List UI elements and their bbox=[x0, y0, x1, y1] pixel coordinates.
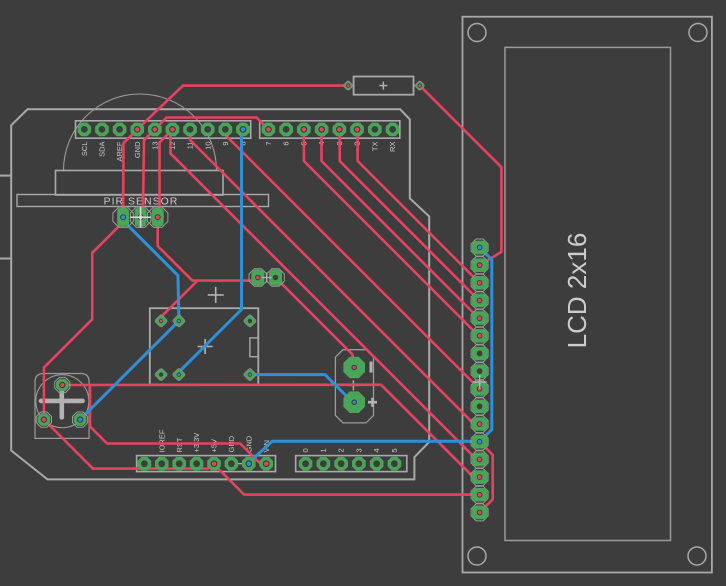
wire rail branch to VIN bbox=[90, 385, 265, 464]
PIR sensor origin cross bbox=[130, 207, 151, 228]
header JP2 pin 2 bbox=[350, 123, 364, 137]
svg-text:9: 9 bbox=[221, 142, 230, 146]
header JP1 pin 8 bbox=[236, 123, 250, 137]
module U1 origin cross bbox=[198, 339, 213, 354]
wire pin 13 to PIR pad 2 bbox=[141, 129, 155, 215]
header JP4 label A5 bbox=[390, 448, 399, 452]
wire trimpot R2 pad 2 rail to LCD pad 14 bbox=[62, 385, 479, 477]
svg-text:6: 6 bbox=[282, 142, 291, 146]
resistor R1 pad 2 bbox=[415, 80, 425, 90]
svg-text:PIR SENSOR: PIR SENSOR bbox=[104, 196, 179, 208]
header JP3 pin NC bbox=[138, 457, 152, 471]
wire jumper JP5 pad 2 to buzzer SG1 plus pad bbox=[276, 278, 355, 368]
module U1 outline bbox=[150, 308, 258, 384]
svg-text:0: 0 bbox=[301, 448, 310, 452]
header JP1 label 13 bbox=[150, 142, 159, 150]
header JP3 label +3.3V bbox=[192, 433, 201, 453]
LCD header pad 2 bbox=[471, 257, 488, 274]
header JP3 pin +5V bbox=[207, 457, 221, 471]
header JP1 pin SCL bbox=[78, 123, 92, 137]
header JP4 pin A1 bbox=[317, 457, 331, 471]
board edge tick lower-left bbox=[0, 258, 11, 260]
header JP4 label A0 bbox=[301, 448, 310, 452]
header JP2 label 6 bbox=[282, 142, 291, 146]
header JP4 label A1 bbox=[319, 448, 328, 452]
svg-text:1: 1 bbox=[319, 448, 328, 452]
svg-text:SDA: SDA bbox=[98, 142, 107, 157]
module U1 pad BL1 bbox=[154, 368, 168, 382]
header JP3 label VIN bbox=[262, 440, 271, 453]
header JP1 pin 13 bbox=[148, 123, 162, 137]
svg-text:GND: GND bbox=[133, 141, 142, 158]
header JP1 pin 10 bbox=[201, 123, 215, 137]
wire GND to resistor R1 bbox=[137, 86, 348, 130]
PIR sensor pad 3 bbox=[148, 207, 168, 227]
LCD header origin cross bbox=[473, 375, 487, 389]
PIR sensor body bbox=[56, 171, 224, 196]
LCD header pad 5 bbox=[471, 310, 488, 327]
board edge tick upper-left bbox=[0, 175, 11, 177]
svg-text:2: 2 bbox=[337, 448, 346, 452]
LCD module outline bbox=[463, 17, 712, 573]
LCD header pad 3 bbox=[471, 274, 488, 291]
header JP1 label AREF bbox=[115, 141, 124, 161]
header JP1 outline bbox=[76, 121, 251, 138]
header JP4 pin A3 bbox=[352, 457, 366, 471]
PIR sensor pad 2 bbox=[130, 207, 150, 227]
header JP4 pin A0 bbox=[299, 457, 313, 471]
LCD header pad 13 bbox=[471, 451, 488, 468]
header JP1 label SDA bbox=[98, 142, 107, 157]
board outline (Arduino shield) bbox=[11, 109, 429, 479]
buzzer SG1 pad minus bbox=[343, 357, 365, 379]
module U1 pad TL2 bbox=[172, 314, 186, 328]
header JP2 label 5 bbox=[299, 142, 308, 146]
LCD header pad 8 bbox=[471, 363, 488, 380]
header JP3 pin IOREF bbox=[155, 457, 169, 471]
header JP2 label RX bbox=[388, 142, 397, 152]
wire PIR pad 1 to module U1 pad TL2 bbox=[123, 221, 179, 321]
svg-text:RX: RX bbox=[388, 142, 397, 152]
header JP4 label A2 bbox=[337, 448, 346, 452]
svg-text:13: 13 bbox=[150, 142, 159, 150]
header JP3 label +5V bbox=[210, 439, 219, 453]
LCD header pad 6 bbox=[471, 327, 488, 344]
trimpot R2 pad 3 bbox=[73, 412, 88, 427]
header JP3 pin VIN bbox=[259, 457, 273, 471]
wire module U1 pad BR to buzzer SG1 minus pad bbox=[250, 375, 354, 403]
trimpot R2 pad 2 bbox=[55, 377, 70, 392]
wire pin 5 to LCD pad 6 bbox=[304, 129, 480, 335]
LCD header pad 10 bbox=[471, 398, 488, 415]
LCD mounting hole bottom-right bbox=[688, 547, 706, 565]
wire pin 2 to LCD pad 3 bbox=[358, 129, 480, 282]
PIR sensor pad 1 bbox=[113, 207, 133, 227]
resistor R1 pad 1 bbox=[343, 80, 353, 90]
jumper JP5 origin cross bbox=[262, 273, 272, 283]
module U1 pad TR bbox=[243, 314, 257, 328]
svg-text:10: 10 bbox=[203, 142, 212, 150]
LCD 2x16 label bbox=[562, 233, 592, 349]
header JP1 label GND bbox=[133, 141, 142, 158]
svg-text:SCL: SCL bbox=[80, 142, 89, 157]
header JP1 label 10 bbox=[203, 142, 212, 150]
trimpot R2 body bbox=[35, 374, 89, 439]
header JP2 pin 3 bbox=[333, 123, 347, 137]
jumper JP5 pad 2 bbox=[267, 269, 285, 287]
wire GND to LCD pad 12 bbox=[248, 441, 480, 463]
wire pin 12 to LCD pad 13 bbox=[171, 129, 480, 459]
header JP2 pin 7 bbox=[262, 123, 276, 137]
header JP2 outline bbox=[260, 121, 400, 138]
LCD mounting hole top-right bbox=[689, 24, 707, 42]
svg-text:3: 3 bbox=[354, 448, 363, 452]
LCD mounting hole top-left bbox=[468, 24, 486, 42]
buzzer SG1 outline bbox=[335, 350, 373, 423]
header JP1 label 11 bbox=[186, 142, 195, 150]
LCD header pad 15 bbox=[471, 486, 488, 503]
module U1 pad BL2 bbox=[172, 368, 186, 382]
header JP1 pin 11 bbox=[183, 123, 197, 137]
header JP4 outline bbox=[296, 456, 407, 472]
origin cross above module bbox=[208, 287, 224, 303]
header JP2 pin RX bbox=[386, 123, 400, 137]
resistor R1 body bbox=[348, 77, 420, 95]
header JP1 label SCL bbox=[80, 142, 89, 157]
wire pin 12 to PIR pad 3 bbox=[158, 129, 173, 214]
wire junction to module U1 pad TL1 bbox=[161, 281, 197, 321]
header JP1 pin 9 bbox=[219, 123, 233, 137]
header JP2 label TX bbox=[370, 142, 379, 152]
wire pin 13 to pin 7 rail bbox=[155, 118, 269, 130]
PIR sensor dome bbox=[64, 94, 217, 171]
svg-text:5: 5 bbox=[390, 448, 399, 452]
svg-text:LCD 2x16: LCD 2x16 bbox=[562, 233, 592, 349]
buzzer SG1 minus label bbox=[370, 362, 373, 373]
header JP2 label 7 bbox=[264, 142, 273, 146]
header JP4 label A3 bbox=[354, 448, 363, 452]
header JP3 label RST bbox=[175, 437, 184, 452]
header JP3 pin RST bbox=[172, 457, 186, 471]
wire resistor R1 to LCD pad 2 bbox=[420, 86, 502, 266]
header JP3 pin +3.3V bbox=[190, 457, 204, 471]
header JP1 pin AREF bbox=[113, 123, 127, 137]
resistor R1 origin cross bbox=[379, 82, 387, 90]
jumper JP5 pad 1 bbox=[249, 269, 267, 287]
LCD header pad 1 bbox=[471, 239, 488, 256]
header JP3 label IOREF bbox=[157, 429, 166, 452]
LCD mounting hole bottom-left bbox=[468, 547, 486, 565]
header JP1 label 12 bbox=[168, 142, 177, 150]
header JP3 pin GND bbox=[242, 457, 256, 471]
LCD header pad 12 bbox=[471, 433, 488, 450]
wire PIR pad 3 to jumper JP5 pad 1 bbox=[158, 222, 258, 281]
header JP4 pin A2 bbox=[334, 457, 348, 471]
header JP1 pin SDA bbox=[95, 123, 109, 137]
header JP1 label 8 bbox=[239, 142, 248, 146]
LCD header pad 7 bbox=[471, 345, 488, 362]
LCD header pad 4 bbox=[471, 292, 488, 309]
LCD header pad 11 bbox=[471, 416, 488, 433]
header JP4 pin A5 bbox=[388, 457, 402, 471]
buzzer SG1 plus label bbox=[368, 398, 377, 407]
svg-text:7: 7 bbox=[264, 142, 273, 146]
airwire GND1 to GND2 bbox=[231, 463, 248, 465]
wire LCD pad 12 to LCD pad 16 bbox=[480, 442, 493, 513]
PIR sensor label bar bbox=[17, 195, 269, 208]
wire +5V to LCD pad 15 bbox=[213, 464, 479, 495]
trimpot R2 wiper cross bbox=[41, 385, 83, 417]
header JP1 pin GND bbox=[130, 123, 144, 137]
header JP2 pin 4 bbox=[315, 123, 329, 137]
header JP4 label A4 bbox=[372, 448, 381, 452]
svg-text:IOREF: IOREF bbox=[157, 429, 166, 452]
buzzer SG1 origin cross bbox=[348, 380, 358, 390]
svg-text:4: 4 bbox=[372, 448, 381, 452]
wire pin 11 to LCD pad 11 bbox=[190, 129, 480, 424]
header JP1 label 9 bbox=[221, 142, 230, 146]
header JP2 label 4 bbox=[317, 142, 326, 146]
trimpot R2 pad 1 bbox=[36, 412, 51, 427]
header JP3 outline bbox=[137, 456, 276, 472]
buzzer SG1 pad plus bbox=[343, 391, 365, 413]
header JP3 pin GND bbox=[225, 457, 239, 471]
header JP3 label GND bbox=[244, 435, 253, 452]
LCD display window bbox=[505, 47, 671, 540]
wire pin 9 to LCD pad 9 bbox=[225, 129, 479, 388]
header JP2 label 3 bbox=[335, 142, 344, 146]
wire PIR pad 1 to trimpot R2 pad 1 bbox=[44, 222, 123, 420]
header JP2 pin 6 bbox=[279, 123, 293, 137]
wire trimpot R2 pad 1 to +5V bbox=[44, 420, 213, 469]
svg-text:8: 8 bbox=[239, 142, 248, 146]
header JP3 label GND bbox=[227, 435, 236, 452]
header JP4 pin A4 bbox=[370, 457, 384, 471]
header JP2 pin TX bbox=[368, 123, 382, 137]
wire pin 8 to module U1 pad BL2 bbox=[179, 129, 243, 374]
header JP2 pin 5 bbox=[297, 123, 311, 137]
wire pin 4 to LCD pad 5 bbox=[322, 129, 480, 318]
wire GND to PIR pad 1 bbox=[123, 129, 137, 215]
module U1 pad TL1 bbox=[154, 314, 168, 328]
module U1 pad BR bbox=[243, 368, 257, 382]
wire pin 3 to LCD pad 4 bbox=[340, 129, 480, 300]
wire LCD pad 1 to LCD pad 12 bbox=[480, 248, 492, 442]
header JP2 label 2 bbox=[353, 142, 362, 146]
header JP1 pin 12 bbox=[166, 123, 180, 137]
LCD header pad 14 bbox=[471, 469, 488, 486]
svg-text:+5V: +5V bbox=[210, 439, 219, 453]
LCD header pad 16 bbox=[471, 504, 488, 521]
wire module U1 pad TL2 to trimpot R2 pad 3 bbox=[80, 321, 179, 420]
svg-text:TX: TX bbox=[370, 142, 379, 152]
LCD header pad 9 bbox=[471, 380, 488, 397]
